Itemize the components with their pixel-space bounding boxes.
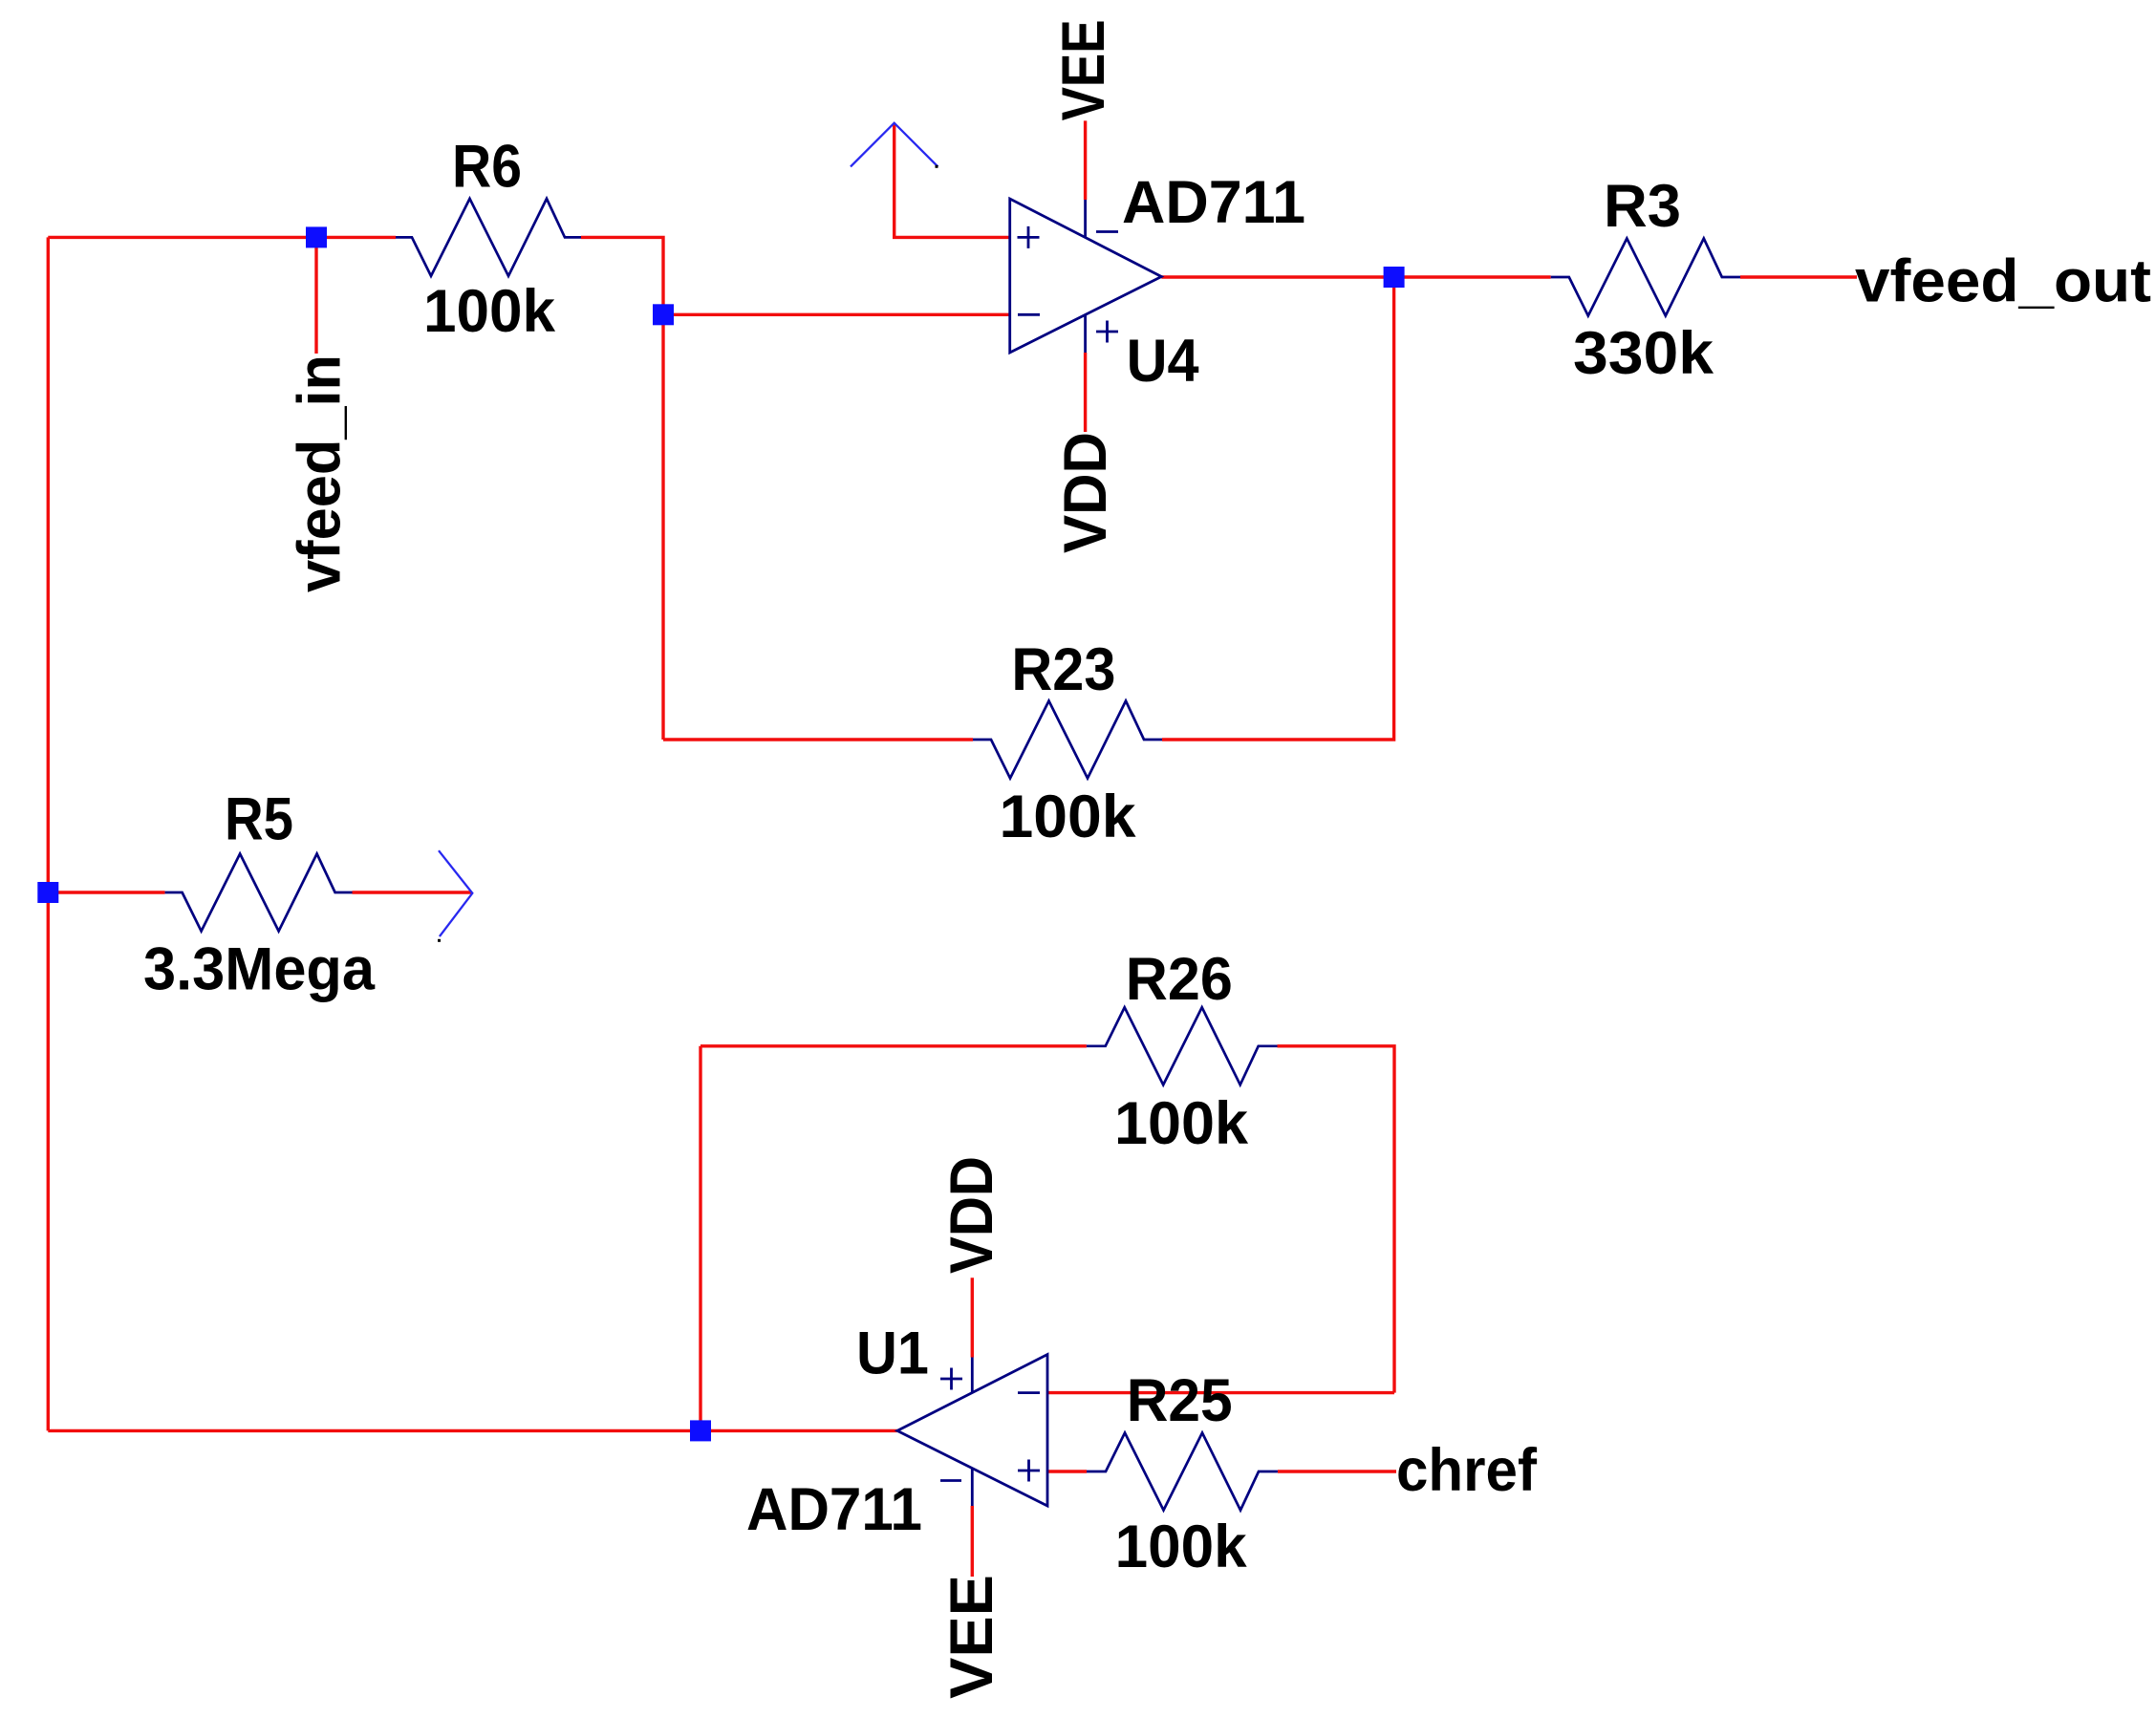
svg-text:VDD: VDD bbox=[1052, 432, 1119, 553]
svg-text:U1: U1 bbox=[856, 1321, 929, 1387]
svg-text:VEE: VEE bbox=[1050, 19, 1117, 120]
svg-text:R3: R3 bbox=[1604, 173, 1681, 240]
resistor R25 100k (zig up first) bbox=[1087, 1433, 1278, 1511]
svg-text:R5: R5 bbox=[225, 786, 293, 853]
node dot right arm bbox=[936, 165, 938, 168]
wire arrow flag to noninverting input of U4 bbox=[895, 123, 1010, 238]
wire R23 right to output junction bbox=[1162, 277, 1394, 740]
resistor R23 100k bbox=[973, 701, 1162, 779]
svg-text:330k: 330k bbox=[1573, 320, 1714, 387]
wire left vertical rail bbox=[47, 237, 50, 1430]
- power mark bbox=[940, 1479, 961, 1482]
- power mark bbox=[1096, 230, 1118, 233]
wire vfeed_in stub bbox=[314, 237, 317, 354]
wire R26 right to right vertical bbox=[1278, 1046, 1395, 1393]
node junction inverting input bbox=[653, 304, 674, 325]
svg-text:vfeed_in: vfeed_in bbox=[287, 354, 354, 592]
wire R3 to vfeed_out bbox=[1740, 275, 1857, 278]
VEE pin inside stub bbox=[971, 1468, 974, 1506]
wire top row: left corner to R6 left lead bbox=[48, 236, 396, 239]
wire R6 right to corner and down to node junction bbox=[581, 237, 663, 314]
svg-text:U4: U4 bbox=[1127, 328, 1199, 395]
node junction U4 output bbox=[1384, 267, 1405, 288]
svg-text:100k: 100k bbox=[1000, 784, 1137, 850]
wire VDD pin of U4 bbox=[1084, 353, 1087, 432]
svg-text:AD711: AD711 bbox=[746, 1476, 922, 1543]
resistor R5 3.3Mega bbox=[165, 854, 353, 932]
resistor R3 330k bbox=[1551, 239, 1740, 316]
svg-text:chref: chref bbox=[1396, 1437, 1538, 1504]
wire junction down to R23 row bbox=[661, 314, 664, 740]
VDD pin inside stub bbox=[1084, 314, 1087, 353]
svg-text:100k: 100k bbox=[1114, 1090, 1249, 1157]
svg-text:R6: R6 bbox=[452, 134, 522, 201]
wire bottom row to U1 output bbox=[48, 1429, 897, 1432]
op-amp U1 AD711 (mirrored) bbox=[897, 1355, 1047, 1507]
VDD pin inside stub bbox=[971, 1358, 974, 1393]
wire U4 output row bbox=[1161, 275, 1550, 278]
svg-text:VDD: VDD bbox=[938, 1156, 1005, 1274]
+ input mark bbox=[1018, 1460, 1040, 1482]
node junction U1 input bbox=[690, 1420, 711, 1441]
arrow flag up (U4 noninverting input net) bbox=[851, 123, 938, 167]
op-amp U4 AD711 bbox=[1010, 199, 1162, 353]
svg-text:100k: 100k bbox=[423, 278, 556, 345]
resistor R26 100k (zig up first) bbox=[1087, 1007, 1278, 1084]
svg-text:R25: R25 bbox=[1127, 1367, 1233, 1434]
wire R26 left lead bbox=[701, 1044, 1087, 1047]
wire R25 to chref bbox=[1278, 1470, 1396, 1472]
node junction vfeed_in bbox=[306, 226, 327, 247]
svg-text:VEE: VEE bbox=[938, 1575, 1005, 1699]
VEE pin inside stub bbox=[1084, 200, 1087, 238]
arrow flag right (R5 output net) bbox=[439, 850, 472, 936]
wire bottom loop left vertical bbox=[699, 1046, 701, 1431]
svg-text:100k: 100k bbox=[1115, 1514, 1248, 1580]
wire feedback row to U1 inverting pin bbox=[1047, 1391, 1394, 1394]
wire R5 right to arrow bbox=[353, 891, 472, 893]
wire R23 left lead bbox=[663, 738, 973, 741]
node dot lower arm bbox=[438, 939, 441, 942]
- input mark bbox=[1018, 1391, 1040, 1394]
wire VDD pin of U1 bbox=[971, 1278, 974, 1357]
wire VEE pin of U4 bbox=[1084, 120, 1087, 200]
resistor R6 100k bbox=[396, 199, 581, 276]
wire R5 left lead bbox=[48, 891, 164, 893]
wire U1 noninverting pin to R25 bbox=[1047, 1470, 1087, 1472]
svg-text:R26: R26 bbox=[1126, 946, 1233, 1013]
wire VEE pin of U1 bbox=[971, 1506, 974, 1577]
+ power mark bbox=[1096, 321, 1118, 343]
+ input mark bbox=[1018, 226, 1040, 248]
wire inverting input row to U4 bbox=[663, 313, 1010, 316]
svg-text:R23: R23 bbox=[1011, 636, 1115, 703]
svg-text:3.3Mega: 3.3Mega bbox=[143, 936, 376, 1003]
node junction R5 tap bbox=[37, 882, 58, 903]
- input mark bbox=[1018, 313, 1040, 316]
+ power mark bbox=[940, 1368, 962, 1390]
svg-text:AD711: AD711 bbox=[1122, 169, 1305, 236]
svg-text:vfeed_out: vfeed_out bbox=[1855, 247, 2151, 314]
